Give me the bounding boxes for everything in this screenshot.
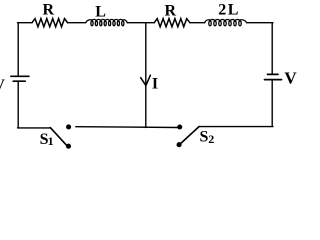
svg-text:1: 1 (48, 134, 54, 148)
svg-text:V: V (0, 77, 5, 94)
svg-text:R: R (43, 2, 55, 19)
svg-text:L: L (228, 2, 239, 19)
svg-text:I: I (152, 76, 158, 93)
svg-text:S: S (200, 128, 209, 145)
svg-text:2: 2 (218, 2, 226, 19)
svg-text:2: 2 (208, 132, 214, 146)
svg-text:L: L (95, 3, 106, 20)
svg-text:R: R (165, 3, 177, 20)
svg-text:V: V (284, 69, 297, 88)
